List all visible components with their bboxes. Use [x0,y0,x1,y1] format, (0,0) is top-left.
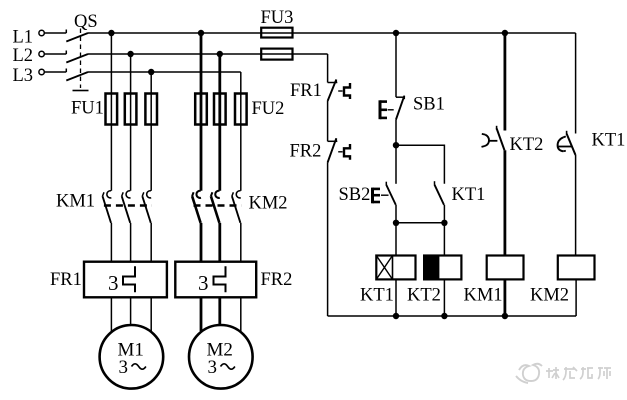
fuse FU3 pole2 [261,49,292,60]
wire FR2 to M2 phase A (bold) [200,297,203,331]
thermal contact FR2 (NC) [328,138,350,162]
node SB2 bottom [393,220,399,226]
wire M1 phase C down [150,72,152,191]
wire SB1 to node [395,120,397,146]
fuse FU2 pole3 [235,94,247,125]
node KT1 bottom [441,220,447,226]
node KT2 coil bottom [441,313,447,319]
wire KT1 contact to node [443,205,445,223]
disconnect switch QS [66,29,88,91]
terminal L1 [39,30,44,35]
svg-text:FU1: FU1 [71,99,104,119]
fuse FU1 pole3 [145,94,157,125]
wire KM1 coil to bottom bus (bold) [503,279,506,316]
svg-text:FU2: FU2 [252,99,285,119]
node SB1 top junction [393,30,399,36]
wire M2 phase B down (bold) [218,54,221,191]
svg-text:FR1: FR1 [290,81,322,101]
svg-text:3: 3 [119,357,129,378]
svg-text:KT2: KT2 [510,135,544,155]
wire SB1 node to SB2 [395,145,397,184]
wire KT2 coil to bottom bus [443,279,445,316]
wire M2 phase C to FR2 [240,223,242,262]
svg-text:KM1: KM1 [464,286,503,306]
node KM1 coil bottom [502,313,508,319]
svg-text:3: 3 [198,271,209,295]
node KT1 coil bottom [393,313,399,319]
svg-text:FR1: FR1 [50,270,82,290]
wire L1 to QS [44,32,66,34]
wire KT1 contact to KM2 coil [575,155,577,256]
svg-text:KM1: KM1 [56,192,95,212]
wire FR1 to M1 phase C [150,297,152,332]
wire KM2 coil to bottom bus [575,279,577,316]
FR2 heater element symbol [214,266,226,292]
wire L3 bus [88,71,241,73]
wire bottom control bus [328,315,576,317]
fuse FU3 pole1 [261,28,292,38]
pushbutton SB2 (NO start) [373,182,396,205]
coil KT1 (time relay, X section) [376,256,415,280]
svg-text:KM2: KM2 [249,194,288,214]
wire node to KT1 coil [395,223,397,256]
wire M1 phase C to FR1 [150,223,152,262]
wire M2 phase A to FR2 (bold) [200,223,203,262]
wire node to KT2 coil [443,223,445,256]
thermal relay FR1 heater box [84,262,167,298]
node L3-FU1 junction [148,69,154,75]
svg-text:L3: L3 [13,66,34,86]
node SB1 bottom junction [393,142,399,148]
coil KM2 [558,256,595,280]
node L2-FU2 junction [217,51,223,57]
node L2-FU1 junction [127,51,133,57]
svg-text:KM2: KM2 [530,286,569,306]
node L1-FU1 junction [108,30,114,36]
wire M2 phase C down [240,72,242,191]
svg-text:FR2: FR2 [261,270,293,290]
node L1-FU2 junction [198,30,204,36]
terminal L2 [39,51,44,56]
svg-text:3: 3 [208,357,218,378]
svg-text:3: 3 [108,271,119,295]
wire L1 corner to KT1 timed contact [575,33,577,134]
wire FR2 to M2 phase B (bold) [218,297,221,325]
svg-text:QS: QS [74,12,98,32]
wire FR1 to M1 phase B [130,297,132,325]
wire between FR1 and FR2 contacts [327,101,329,141]
pushbutton SB1 (NC stop) [380,96,405,120]
wire M1 phase B to FR1 [130,223,132,262]
timed contact KT1 (delay) [558,131,576,155]
wire FR2 to M2 phase C [240,297,242,331]
timed contact KT2 (delay) [482,126,505,151]
wire SB2 to node [395,205,397,223]
svg-text:KT1: KT1 [452,185,486,205]
watermark logo [516,364,542,383]
wire L1 bus [88,32,576,34]
wire M1 phase A to FR1 [110,223,112,262]
terminal L3 [39,69,44,74]
FR1 heater element symbol [123,266,135,292]
contactor KM1 main contacts [103,191,153,223]
thermal contact FR1 (NC) [328,80,350,102]
coil KM1 [487,256,524,280]
svg-text:KT1: KT1 [592,131,626,151]
contactor KM2 main contacts [192,191,242,223]
wire KT1 coil to bottom bus [395,279,397,316]
svg-text:KT1: KT1 [360,286,394,306]
motor M2 [189,325,253,389]
wire L2 to QS [44,53,66,55]
svg-text:FU3: FU3 [261,8,294,28]
wire M2 phase B to FR2 (bold) [218,223,221,262]
wire L2 bus [88,53,328,55]
wire KT2 contact to KM1 coil (bold) [503,150,506,255]
svg-text:KT2: KT2 [407,286,441,306]
wire control left rail from FU3 [327,54,329,83]
fuse FU1 pole1 [106,94,118,125]
contact KT1 auxiliary (NO) [435,181,445,205]
thermal relay FR2 heater box [175,262,256,298]
wire L1 to SB1 [395,33,397,97]
fuse FU1 pole2 [125,94,137,125]
svg-text:L2: L2 [13,46,34,66]
coil KT2 (time relay, solid section) [424,256,461,280]
motor M1 [100,325,164,389]
svg-text:L1: L1 [13,28,34,48]
wire branch to KT1 contact [396,145,444,184]
wire FR1 to M1 phase A [110,297,112,332]
svg-text:SB1: SB1 [413,95,445,115]
node KT2 top junction [502,30,508,36]
wire M1 phase A down [110,33,112,191]
wire L3 to QS [44,71,66,73]
wire left rail to bottom [327,163,329,317]
fuse FU2 pole1 [195,94,207,125]
fuse FU2 pole2 [214,94,226,125]
wire parallel connector [396,222,444,224]
wire L1 to KT2 contact (bold) [503,33,506,131]
wire M1 phase B down [130,54,132,191]
watermark text [546,367,611,380]
wire M2 phase A down (bold) [200,33,203,191]
svg-text:FR2: FR2 [290,142,322,162]
svg-text:SB2: SB2 [339,185,371,205]
